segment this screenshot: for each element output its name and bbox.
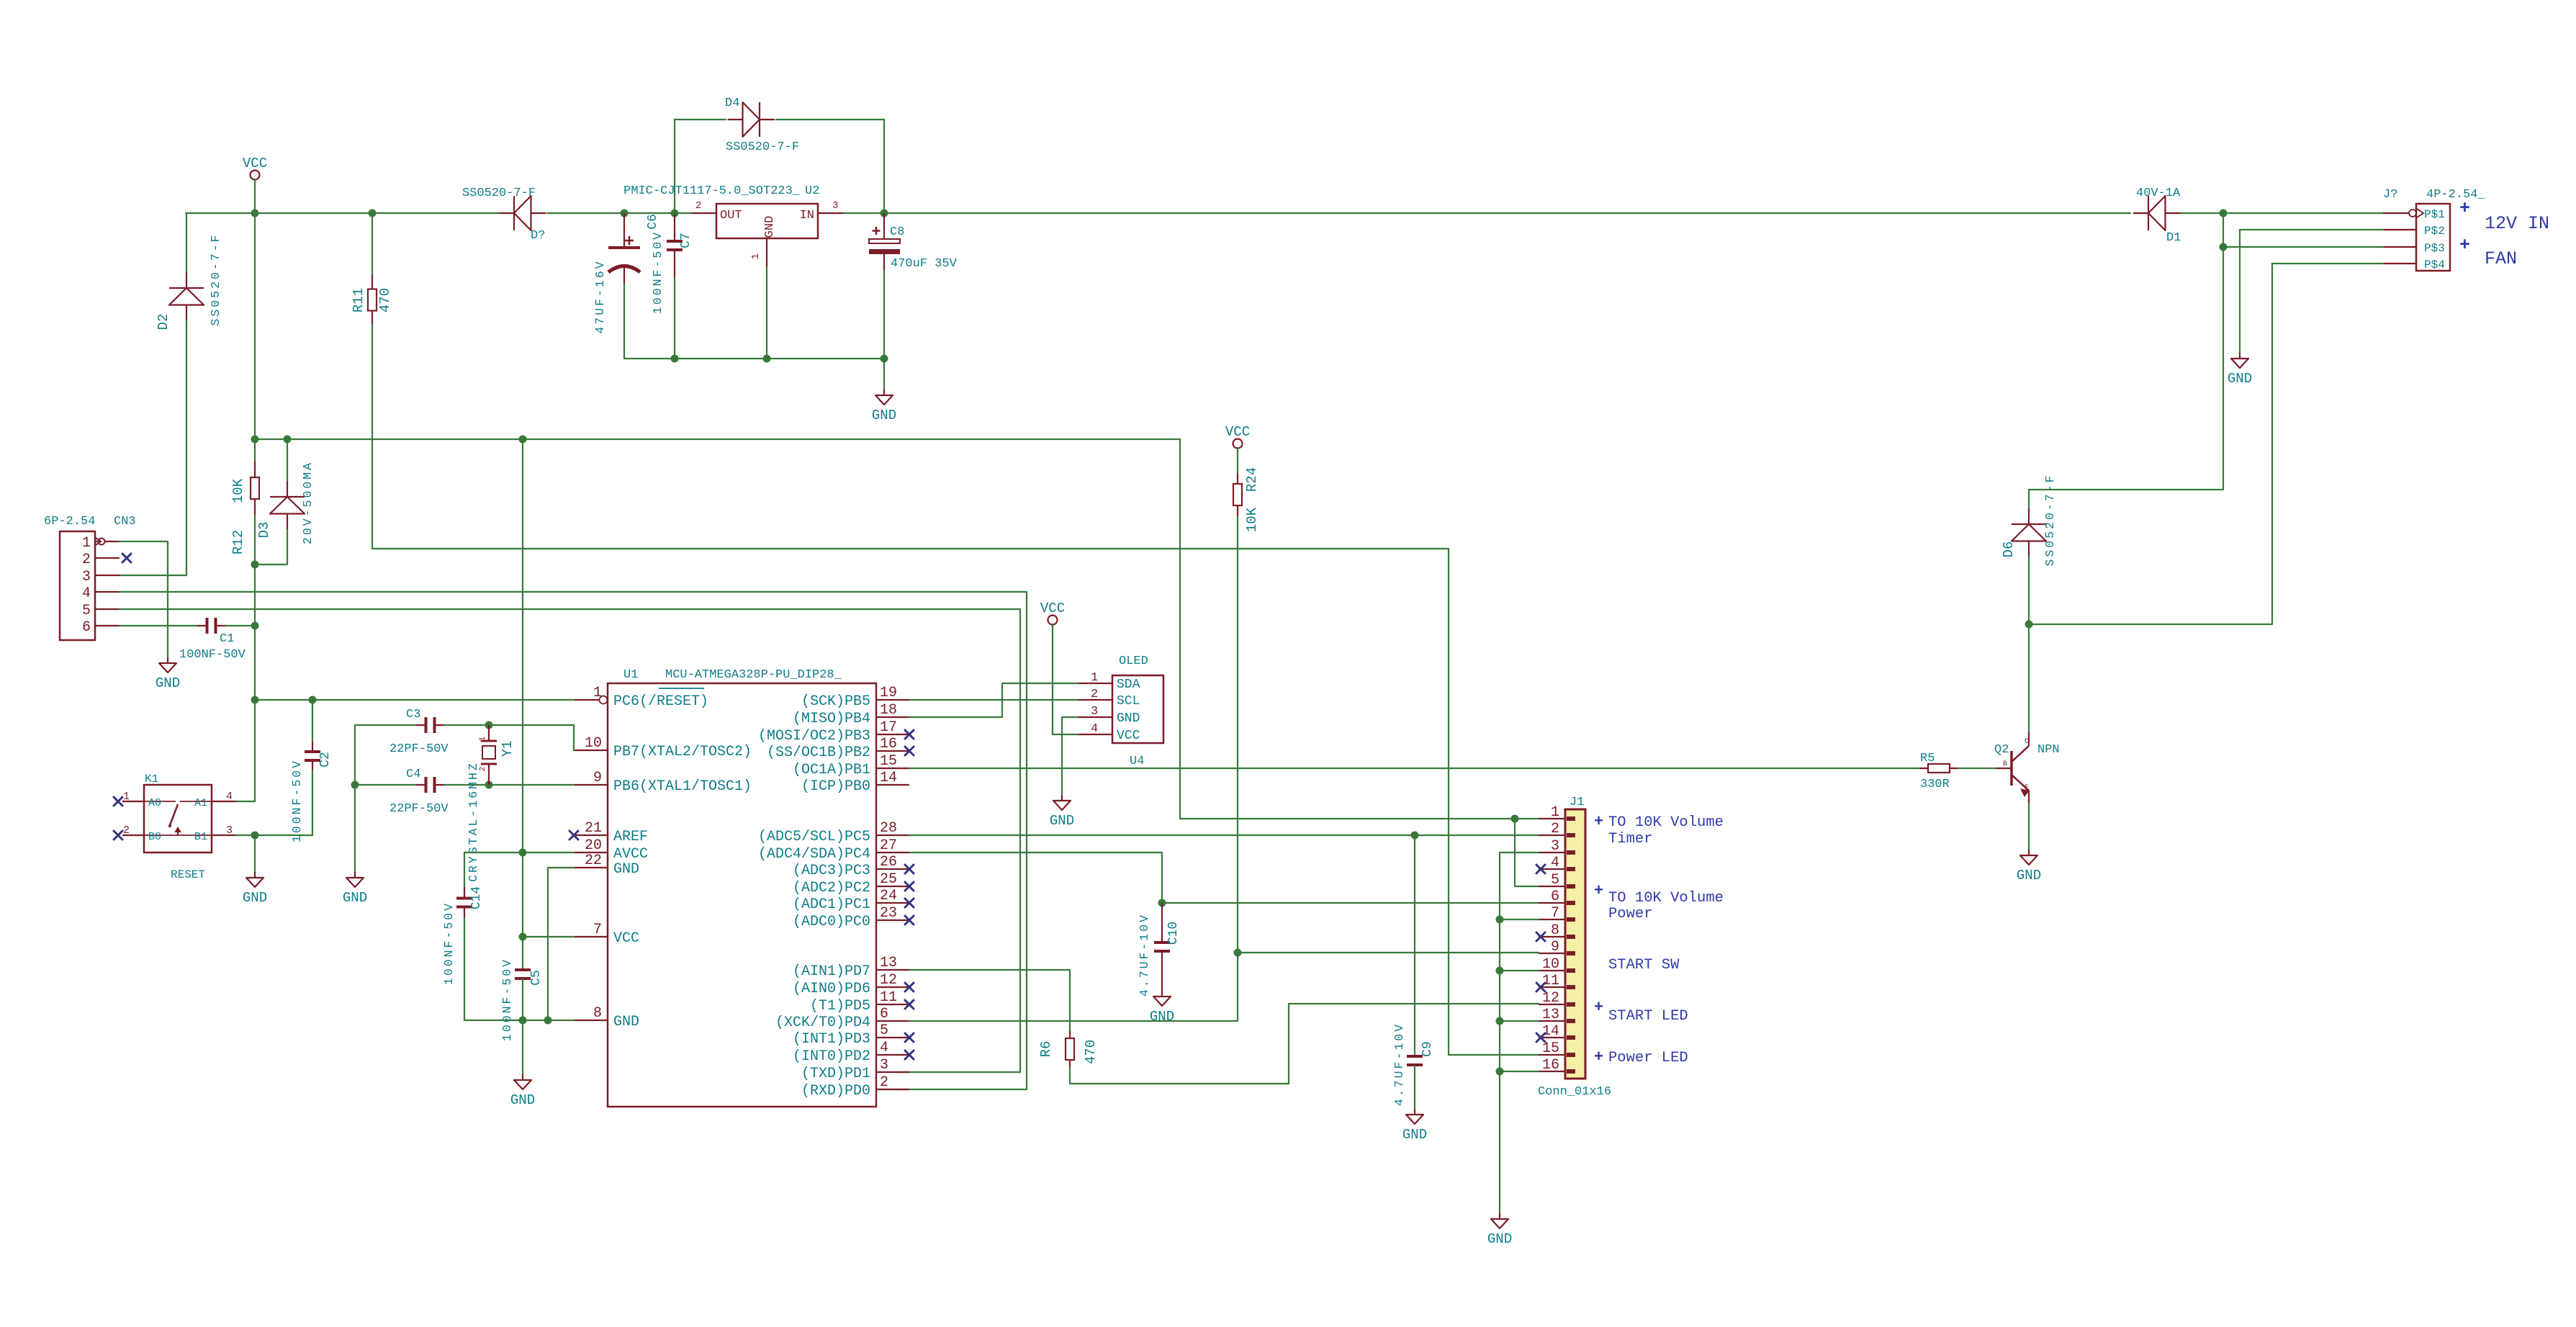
svg-text:(ADC2)PC2: (ADC2)PC2 bbox=[793, 880, 870, 896]
svg-text:14: 14 bbox=[1542, 1023, 1559, 1040]
svg-text:GND: GND bbox=[1402, 1127, 1427, 1143]
svg-text:AREF: AREF bbox=[613, 829, 648, 845]
svg-text:GND: GND bbox=[243, 890, 267, 906]
wire MCU PB1 OC1A to R5 bbox=[909, 768, 1919, 769]
svg-text:K1: K1 bbox=[145, 773, 158, 786]
svg-text:25: 25 bbox=[880, 871, 897, 888]
diode D4 SS0520-7-F bypass bbox=[728, 102, 775, 137]
wire VCC distribution rail bbox=[255, 438, 1180, 440]
svg-text:2: 2 bbox=[880, 1074, 888, 1091]
svg-text:P$2: P$2 bbox=[2424, 225, 2445, 238]
pin 2 J1 bbox=[1539, 835, 1565, 836]
svg-text:+: + bbox=[1594, 882, 1603, 900]
pin 19 U1 (SCK)PB5 bbox=[876, 699, 909, 701]
svg-text:(SCK)PB5: (SCK)PB5 bbox=[801, 693, 870, 710]
svg-text:R5: R5 bbox=[1920, 752, 1935, 765]
wire VCC to OLED VCC pin bbox=[1053, 624, 1078, 734]
pin 4 U1 (INT0)PD2 bbox=[876, 1054, 909, 1056]
svg-text:C10: C10 bbox=[1166, 922, 1181, 945]
node VCC pin7 junction bbox=[519, 933, 527, 941]
wire MCU PC5 to J1 pin 2 bbox=[909, 835, 1539, 836]
svg-text:U1: U1 bbox=[623, 668, 638, 682]
svg-text:C9: C9 bbox=[1420, 1041, 1435, 1057]
svg-text:(INT0)PD2: (INT0)PD2 bbox=[793, 1048, 870, 1065]
svg-text:PB6(XTAL1/TOSC1): PB6(XTAL1/TOSC1) bbox=[613, 778, 752, 795]
svg-text:PB7(XTAL2/TOSC2): PB7(XTAL2/TOSC2) bbox=[613, 744, 752, 760]
svg-text:MCU-ATMEGA328P-PU_DIP28_: MCU-ATMEGA328P-PU_DIP28_ bbox=[665, 668, 842, 682]
pin 12 U1 (AIN0)PD6 bbox=[876, 986, 909, 988]
svg-text:(ADC5/SCL)PC5: (ADC5/SCL)PC5 bbox=[758, 829, 870, 845]
wire J? P$4 FAN- bbox=[2272, 263, 2383, 264]
pin 24 U1 (ADC1)PC1 bbox=[876, 902, 909, 904]
pin 22 U1 GND bbox=[575, 867, 608, 868]
svg-text:VCC: VCC bbox=[613, 930, 639, 947]
svg-text:GND: GND bbox=[1150, 1009, 1174, 1025]
resistor R24 10K bbox=[1233, 473, 1242, 516]
svg-text:D3: D3 bbox=[256, 522, 272, 539]
no-connect K1 pin 2 bbox=[114, 831, 122, 840]
node VCC distribution junctions bbox=[251, 436, 259, 444]
wire U2 GND pin to GND rail bbox=[766, 267, 767, 359]
svg-text:C: C bbox=[2025, 738, 2029, 746]
svg-text:GND: GND bbox=[763, 216, 777, 238]
no-connect J1 pin 11 bbox=[1536, 983, 1545, 991]
diode D3 20V-500MA bbox=[270, 481, 305, 530]
node J1 pin1 pin5 junction bbox=[1511, 815, 1519, 823]
svg-text:+: + bbox=[2459, 235, 2470, 256]
svg-text:(TXD)PD1: (TXD)PD1 bbox=[801, 1066, 870, 1082]
wire AVCC net bbox=[464, 852, 575, 853]
svg-text:B: B bbox=[2003, 760, 2007, 768]
node regulator GND rail junctions bbox=[671, 355, 679, 363]
svg-text:(AIN0)PD6: (AIN0)PD6 bbox=[793, 981, 870, 997]
wire D6 node to Q2 collector bbox=[2028, 624, 2030, 732]
wire CN3 pin4 to MCU PD0 RXD bbox=[120, 592, 1027, 1089]
resistor R11 470 bbox=[368, 275, 377, 325]
svg-text:28: 28 bbox=[880, 820, 897, 837]
pin 16 U1 (SS/OC1B)PB2 bbox=[876, 750, 909, 752]
pin 15 U1 (OC1A)PB1 bbox=[876, 768, 909, 769]
svg-text:Conn_01x16: Conn_01x16 bbox=[1538, 1085, 1611, 1099]
svg-text:C14: C14 bbox=[469, 886, 484, 909]
svg-text:C2: C2 bbox=[318, 752, 333, 768]
svg-text:5: 5 bbox=[880, 1022, 888, 1039]
svg-text:GND: GND bbox=[2228, 371, 2252, 387]
wire K1 B1 bbox=[236, 835, 255, 836]
svg-text:6: 6 bbox=[1551, 889, 1559, 905]
wire K1 B1 to GND bbox=[254, 835, 256, 873]
svg-text:9: 9 bbox=[1551, 939, 1559, 955]
svg-text:+: + bbox=[2459, 198, 2470, 219]
node C4 GND junction bbox=[351, 781, 359, 789]
svg-text:C8: C8 bbox=[890, 225, 904, 239]
wire C9 top bbox=[1414, 835, 1415, 1056]
svg-text:GND: GND bbox=[1117, 711, 1140, 726]
wire branch to J1 pin 5 bbox=[1515, 819, 1539, 886]
pin 14 U1 (ICP)PB0 bbox=[876, 784, 909, 786]
pin 2 CN3 bbox=[95, 557, 120, 559]
svg-text:47UF-16V: 47UF-16V bbox=[593, 259, 607, 333]
svg-text:10K: 10K bbox=[1244, 507, 1260, 532]
wire MCU PC4 to C10 node bbox=[909, 853, 1162, 903]
svg-text:9: 9 bbox=[593, 770, 602, 786]
wire VCC symbol to rail bbox=[254, 179, 256, 213]
pin 1 CN3 bbox=[95, 541, 120, 542]
wire 12V rail left segment bbox=[186, 212, 499, 214]
svg-text:16: 16 bbox=[1542, 1057, 1559, 1074]
svg-text:Y1: Y1 bbox=[500, 741, 515, 757]
diode D? SS0520-7-F series bbox=[499, 196, 546, 230]
svg-text:19: 19 bbox=[880, 685, 897, 701]
wire GND bus to J1 pin at y1418 bbox=[1500, 1020, 1539, 1022]
ground under C8 bbox=[872, 390, 896, 423]
svg-text:(AIN1)PD7: (AIN1)PD7 bbox=[793, 963, 870, 980]
svg-text:P$1: P$1 bbox=[2424, 208, 2445, 221]
VCC power symbol OLED bbox=[1040, 600, 1065, 625]
pin 9 J1 bbox=[1539, 953, 1565, 954]
svg-text:3: 3 bbox=[832, 200, 838, 212]
svg-text:OLED: OLED bbox=[1119, 654, 1148, 668]
wire C3 left bbox=[355, 724, 416, 726]
node AVCC junction bbox=[519, 849, 527, 857]
svg-text:24: 24 bbox=[880, 888, 897, 904]
svg-text:13: 13 bbox=[880, 955, 897, 971]
svg-text:5: 5 bbox=[1551, 872, 1559, 889]
svg-text:(T1)PD5: (T1)PD5 bbox=[810, 998, 870, 1015]
connector CN3 6P-2.54 bbox=[60, 531, 95, 640]
wire R24 to MCU PD4 net bbox=[909, 516, 1238, 1021]
svg-text:1: 1 bbox=[479, 736, 487, 741]
svg-text:SS0520-7-F: SS0520-7-F bbox=[726, 140, 799, 154]
ground crystal caps bbox=[343, 872, 367, 906]
svg-text:3: 3 bbox=[226, 824, 233, 837]
pin 1 J1 bbox=[1539, 818, 1565, 819]
switch lever K1 bbox=[170, 804, 178, 825]
wire VCC vertical to R12 bbox=[254, 213, 256, 461]
svg-text:A0: A0 bbox=[148, 797, 161, 809]
wire VCC rail to J1 pin1 Volume Timer bbox=[1180, 439, 1539, 819]
wire 12V to D6 cathode bbox=[2028, 490, 2030, 508]
capacitor C6 47UF-16V bbox=[608, 213, 640, 284]
pin P$4 J? bbox=[2383, 263, 2416, 264]
wire rail to R11 bbox=[371, 213, 373, 275]
svg-text:22PF-50V: 22PF-50V bbox=[389, 742, 449, 756]
wire C2 to K1 B1 net bbox=[255, 770, 312, 835]
no-connect U1 AREF bbox=[569, 831, 578, 840]
svg-text:VCC: VCC bbox=[1225, 424, 1250, 440]
svg-text:VCC: VCC bbox=[1117, 729, 1140, 743]
svg-text:GND: GND bbox=[1487, 1231, 1512, 1247]
svg-text:GND: GND bbox=[613, 861, 639, 878]
svg-text:R11: R11 bbox=[351, 288, 366, 312]
wire VCC to D3 cathode bbox=[287, 439, 288, 480]
svg-text:(SS/OC1B)PB2: (SS/OC1B)PB2 bbox=[767, 745, 870, 761]
wire J? P$3 to 12V bbox=[2223, 246, 2383, 248]
svg-text:Power: Power bbox=[1608, 906, 1653, 922]
no-connect J1 pin 8 bbox=[1536, 932, 1545, 941]
capacitor C7 100NF-50V bbox=[667, 213, 683, 278]
diode D1 40V-1A bbox=[2133, 196, 2181, 230]
ground CN3 pin1 bbox=[156, 657, 180, 691]
crystal Y1 CRYSTAL-16MHZ bbox=[481, 725, 497, 785]
no-connect K1 pin 1 bbox=[114, 797, 122, 806]
svg-text:D1: D1 bbox=[2166, 231, 2181, 245]
wire GND bus to J1 pin at y1277 bbox=[1500, 919, 1539, 920]
connector J1 Conn_01x16 bbox=[1565, 809, 1585, 1079]
svg-text:40V-1A: 40V-1A bbox=[2136, 186, 2181, 200]
wire rail to D2 cathode bbox=[186, 213, 187, 272]
pin 8 J1 bbox=[1539, 936, 1565, 937]
wire J1 pin3 GND bus bbox=[1500, 853, 1539, 1213]
svg-text:P$4: P$4 bbox=[2424, 258, 2445, 271]
svg-text:NPN: NPN bbox=[2037, 743, 2060, 757]
svg-text:TO 10K Volume: TO 10K Volume bbox=[1608, 814, 1724, 831]
node RESET rail C2 junction bbox=[309, 696, 317, 704]
svg-text:A1: A1 bbox=[194, 797, 207, 809]
ground OLED bbox=[1050, 795, 1074, 829]
svg-text:D6: D6 bbox=[2001, 541, 2017, 558]
ground Q2 emitter bbox=[2017, 850, 2041, 883]
pin 1 U1 PC6(/RESET) bbox=[575, 699, 599, 701]
svg-text:23: 23 bbox=[880, 905, 897, 922]
svg-text:(ADC4/SDA)PC4: (ADC4/SDA)PC4 bbox=[758, 846, 870, 863]
svg-text:4.7UF-10V: 4.7UF-10V bbox=[1392, 1022, 1406, 1106]
VCC power symbol top-left bbox=[243, 156, 267, 180]
svg-text:10K: 10K bbox=[230, 478, 246, 503]
svg-text:5: 5 bbox=[82, 603, 91, 619]
wire RESET rail to MCU PC6 bbox=[255, 699, 575, 701]
svg-text:3: 3 bbox=[880, 1057, 888, 1074]
svg-text:VCC: VCC bbox=[1040, 600, 1065, 616]
svg-text:1: 1 bbox=[1551, 804, 1559, 821]
svg-text:10: 10 bbox=[1542, 956, 1559, 973]
svg-text:100NF-50V: 100NF-50V bbox=[290, 759, 304, 842]
svg-text:GND: GND bbox=[872, 408, 896, 423]
svg-text:(OC1A)PB1: (OC1A)PB1 bbox=[793, 762, 870, 778]
node C3 Y1 junction bbox=[485, 721, 493, 729]
wire D4 to OUT node bbox=[674, 120, 675, 213]
no-connect J1 pin 4 bbox=[1536, 865, 1545, 873]
pin 10 J1 bbox=[1539, 970, 1565, 971]
no-connect U1 pin 4 bbox=[905, 1051, 914, 1059]
wire 12V rail U2 IN to D1 bbox=[843, 212, 2130, 214]
no-connect U1 pin 12 bbox=[905, 983, 914, 991]
resistor R12 10K bbox=[251, 461, 259, 516]
wire C14 top bbox=[464, 853, 465, 887]
svg-text:RESET: RESET bbox=[171, 868, 205, 881]
wire D4 right bbox=[776, 119, 884, 120]
svg-text:C1: C1 bbox=[220, 632, 234, 646]
pin P$1 J? bbox=[2383, 212, 2416, 214]
pin 23 U1 (ADC0)PC0 bbox=[876, 919, 909, 921]
svg-text:(MOSI/OC2)PB3: (MOSI/OC2)PB3 bbox=[758, 728, 870, 745]
wire C4 to MCU PB6 XTAL1 bbox=[444, 784, 575, 786]
svg-text:(ADC1)PC1: (ADC1)PC1 bbox=[793, 896, 870, 913]
IC U1 MCU-ATMEGA328P-PU_DIP28 bbox=[608, 683, 876, 1107]
svg-text:4.7UF-10V: 4.7UF-10V bbox=[1138, 913, 1151, 997]
capacitor C14 100NF-50V bbox=[456, 887, 472, 918]
wire 12V rail from D? to U2 OUT bbox=[547, 212, 691, 214]
no-connect U1 pin 16 bbox=[905, 747, 914, 755]
pin 1 U4 SDA bbox=[1078, 683, 1112, 684]
pin P$3 J? bbox=[2383, 246, 2416, 248]
svg-text:C7: C7 bbox=[679, 233, 693, 248]
node MCU GND rail junctions bbox=[519, 1017, 527, 1025]
wire PD4 net to J1 pin 9 bbox=[1238, 952, 1539, 953]
svg-text:4: 4 bbox=[226, 791, 233, 803]
svg-text:CN3: CN3 bbox=[114, 515, 136, 528]
svg-text:GND: GND bbox=[2017, 868, 2041, 883]
svg-text:IN: IN bbox=[800, 209, 814, 222]
wire C1 to RESET net bbox=[225, 625, 255, 626]
ground J1 bus bbox=[1487, 1213, 1512, 1247]
svg-text:OUT: OUT bbox=[720, 209, 742, 222]
pin 26 U1 (ADC3)PC3 bbox=[876, 868, 909, 870]
wire MCU PD7 to R6 bbox=[909, 970, 1070, 1031]
pin 4 CN3 bbox=[95, 591, 120, 593]
no-connect U1 pin 11 bbox=[905, 1000, 914, 1009]
svg-text:2: 2 bbox=[1091, 688, 1098, 701]
pin 8 U1 GND bbox=[575, 1020, 608, 1021]
svg-text:P$3: P$3 bbox=[2424, 242, 2445, 255]
node RESET net junctions bbox=[251, 561, 259, 569]
svg-text:12V IN: 12V IN bbox=[2485, 213, 2549, 234]
svg-text:(INT1)PD3: (INT1)PD3 bbox=[793, 1031, 870, 1048]
svg-text:4: 4 bbox=[1091, 722, 1098, 736]
no-connect U1 pin 26 bbox=[905, 865, 914, 873]
svg-text:TO 10K Volume: TO 10K Volume bbox=[1608, 890, 1724, 907]
svg-text:1: 1 bbox=[593, 685, 602, 701]
transistor Q2 NPN bbox=[1996, 732, 2029, 804]
svg-text:15: 15 bbox=[1542, 1040, 1559, 1057]
svg-text:J?: J? bbox=[2383, 188, 2397, 202]
wire OLED GND bbox=[1062, 717, 1078, 795]
svg-text:Timer: Timer bbox=[1608, 831, 1653, 847]
svg-text:1: 1 bbox=[750, 253, 762, 259]
svg-text:C4: C4 bbox=[406, 768, 420, 781]
svg-text:SDA: SDA bbox=[1117, 678, 1140, 692]
svg-text:(MISO)PB4: (MISO)PB4 bbox=[793, 711, 870, 727]
pin 7 J1 bbox=[1539, 919, 1565, 920]
wire MCU PB5 to OLED SCL bbox=[909, 699, 1078, 701]
wire C5 to GND bbox=[522, 979, 523, 1074]
node R24 J1 pin9 junction bbox=[1234, 949, 1242, 957]
pin 10 U1 PB7(XTAL2/TOSC2) bbox=[575, 750, 608, 751]
wire VCC to MCU pin7 bbox=[523, 936, 575, 937]
svg-text:13: 13 bbox=[1542, 1007, 1559, 1023]
no-connect U1 pin 24 bbox=[905, 899, 914, 907]
svg-text:15: 15 bbox=[880, 753, 897, 770]
node 12V P$3 junction bbox=[2220, 243, 2228, 251]
svg-text:3: 3 bbox=[82, 569, 91, 585]
svg-text:2: 2 bbox=[695, 200, 701, 212]
wire MCU PB4 to OLED SDA bbox=[909, 683, 1078, 717]
wire Q2 emitter to GND bbox=[2028, 804, 2030, 850]
svg-text:18: 18 bbox=[880, 702, 897, 719]
wire J? P$2 bbox=[2240, 229, 2383, 230]
svg-text:(ADC3)PC3: (ADC3)PC3 bbox=[793, 863, 870, 879]
wire GND rail drop bbox=[883, 359, 885, 390]
relay K1 RESET switch bbox=[144, 785, 212, 853]
pin 18 U1 (MISO)PB4 bbox=[876, 716, 909, 718]
pin 5 J1 bbox=[1539, 886, 1565, 887]
wire RESET to C2 bbox=[312, 700, 313, 742]
svg-text:START LED: START LED bbox=[1608, 1008, 1688, 1025]
svg-text:3: 3 bbox=[1091, 705, 1098, 719]
wire 12V junction down to D6 bbox=[2029, 213, 2223, 490]
wire C4 left bbox=[355, 784, 416, 786]
wire MCU GND pin22 to rail bbox=[548, 868, 575, 1020]
pin 21 U1 AREF bbox=[575, 835, 608, 836]
pin 11 U1 (T1)PD5 bbox=[876, 1004, 909, 1005]
svg-text:4: 4 bbox=[880, 1040, 888, 1056]
ground 12V return bbox=[2228, 353, 2252, 387]
svg-text:J1: J1 bbox=[1570, 796, 1584, 809]
svg-text:4: 4 bbox=[1551, 855, 1559, 871]
pin P$2 J? bbox=[2383, 229, 2416, 230]
svg-text:21: 21 bbox=[585, 820, 602, 837]
connector U4 OLED bbox=[1112, 675, 1163, 743]
svg-text:20V-500MA: 20V-500MA bbox=[301, 461, 315, 544]
pin 1 CN3 open-collector circle bbox=[99, 539, 105, 545]
pin 11 J1 bbox=[1539, 986, 1565, 988]
svg-text:GND: GND bbox=[510, 1092, 535, 1108]
wire VCC to R24 bbox=[1237, 448, 1238, 473]
svg-text:22: 22 bbox=[585, 853, 602, 869]
svg-text:10: 10 bbox=[585, 735, 602, 752]
wire P$2 to GND bbox=[2239, 230, 2241, 353]
pin 4 U4 VCC bbox=[1078, 734, 1112, 735]
wire CN3 pin5 to MCU PD1 TXD bbox=[120, 609, 1020, 1072]
pin 13 U1 (AIN1)PD7 bbox=[876, 969, 909, 971]
wire C6 to GND rail bbox=[623, 284, 625, 359]
svg-text:Q2: Q2 bbox=[1994, 743, 2009, 757]
pin 20 U1 AVCC bbox=[575, 852, 608, 853]
capacitor C1 100NF-50V bbox=[197, 618, 225, 634]
svg-text:AVCC: AVCC bbox=[613, 846, 648, 863]
regulator U2 PMIC-CJT1117-5.0_SOT223 bbox=[716, 204, 818, 238]
pin 12 J1 bbox=[1539, 1004, 1565, 1005]
wire R6 to J1 pin 12 Start LED bbox=[1070, 1004, 1539, 1084]
pin 6 CN3 bbox=[95, 625, 120, 626]
ground C9 bbox=[1402, 1109, 1427, 1143]
pin 5 U1 (INT1)PD3 bbox=[876, 1037, 909, 1038]
svg-text:20: 20 bbox=[585, 837, 602, 854]
wire C14 to GND rail pin8 bbox=[464, 918, 575, 1020]
pin 28 U1 (ADC5/SCL)PC5 bbox=[876, 835, 909, 836]
svg-text:SCL: SCL bbox=[1117, 694, 1140, 709]
wire R5 to Q2 base bbox=[1958, 768, 1996, 769]
svg-text:D2: D2 bbox=[156, 314, 171, 330]
svg-text:Power LED: Power LED bbox=[1608, 1050, 1688, 1066]
svg-text:12: 12 bbox=[1542, 990, 1559, 1007]
wire GND bus to J1 pin at y1488 bbox=[1500, 1071, 1539, 1072]
ground C10 bbox=[1150, 991, 1174, 1025]
node K1 B1 junction bbox=[251, 832, 259, 840]
capacitor C5 100NF-50V bbox=[515, 969, 531, 979]
svg-text:PC6(/RESET): PC6(/RESET) bbox=[613, 693, 708, 710]
wire C8 to GND rail bbox=[883, 271, 885, 359]
svg-text:7: 7 bbox=[593, 922, 602, 938]
svg-text:1: 1 bbox=[1091, 671, 1098, 685]
svg-text:100NF-50V: 100NF-50V bbox=[500, 958, 514, 1041]
no-connect U1 pin 5 bbox=[905, 1033, 914, 1042]
capacitor C8 470uF 35V bbox=[869, 213, 900, 271]
svg-text:1: 1 bbox=[82, 535, 91, 552]
svg-text:+: + bbox=[1594, 813, 1603, 831]
node C10 junction bbox=[1158, 899, 1166, 907]
svg-text:+: + bbox=[1594, 1048, 1603, 1066]
